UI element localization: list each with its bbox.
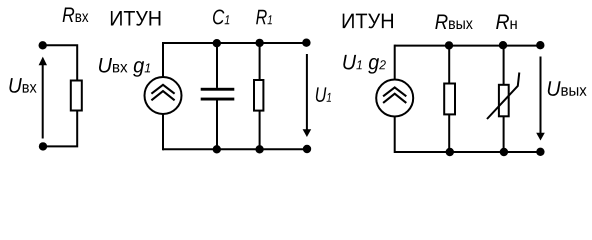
wire source1 bottom lead <box>162 114 164 150</box>
node R_vyh bottom <box>446 148 454 156</box>
node bottom-left terminal <box>39 142 47 150</box>
resistor R_vx <box>71 81 82 111</box>
node middle out top <box>302 39 310 47</box>
current source U1 (ITUN g1) <box>145 77 182 114</box>
node R1 bottom <box>255 145 263 153</box>
resistor R_vyh <box>444 84 455 115</box>
label C1 <box>213 10 229 25</box>
wire right bottom <box>395 151 541 153</box>
label ITUN left <box>111 11 160 26</box>
wire left bottom <box>43 111 77 147</box>
wire right top <box>395 45 541 47</box>
label ITUN right <box>343 14 393 29</box>
node right out top <box>536 41 544 49</box>
node R1 top <box>255 39 263 47</box>
node C1 top <box>213 39 221 47</box>
wire C1 top lead <box>216 43 218 88</box>
wire source1 top lead <box>162 42 164 77</box>
label R1 <box>256 10 272 24</box>
label R_n <box>496 15 517 29</box>
node top-left terminal <box>39 41 47 49</box>
node R_n bottom <box>500 148 508 156</box>
wire source2 top lead <box>394 45 396 80</box>
label U1 g2 <box>343 55 386 74</box>
label U_vx <box>9 78 36 93</box>
node C1 bottom <box>213 145 221 153</box>
wire C1 bottom lead <box>216 101 218 150</box>
resistor R1 <box>254 80 263 111</box>
wire R1 top lead <box>259 43 261 80</box>
wire middle top <box>163 42 306 44</box>
node R_vyh top <box>445 41 453 49</box>
node R_n top <box>499 41 507 49</box>
label U1 <box>316 87 331 102</box>
node right out bottom <box>536 148 544 156</box>
label U_vx g1 <box>99 58 150 77</box>
wire middle bottom <box>163 148 307 150</box>
arrow U_vyh <box>536 57 545 141</box>
node middle out bottom <box>303 145 311 153</box>
wire R_vyh top lead <box>448 46 450 83</box>
wire R1 bottom lead <box>259 111 261 150</box>
label U_vyh <box>548 81 587 96</box>
wire R_vyh bottom lead <box>448 115 450 153</box>
varistor R_n <box>487 73 519 120</box>
wire R_n top lead <box>503 46 505 85</box>
wire R_n bottom lead <box>503 116 505 152</box>
label R_vx <box>63 8 89 22</box>
current source U2 (ITUN g2) <box>376 80 413 117</box>
arrow U_vx <box>39 57 47 139</box>
label R_vyh <box>435 15 472 29</box>
wire source2 bottom lead <box>394 117 396 154</box>
wire left top <box>43 45 77 80</box>
arrow U1 <box>303 54 312 137</box>
capacitor C1 <box>201 88 235 101</box>
